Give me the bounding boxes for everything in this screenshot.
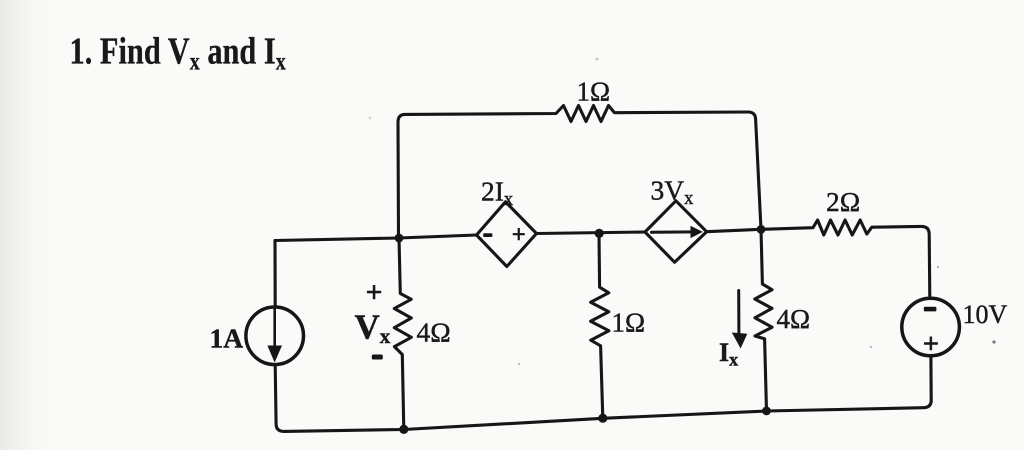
svg-text:4Ω: 4Ω xyxy=(417,317,451,348)
svg-text:1A: 1A xyxy=(210,323,244,354)
svg-text:+: + xyxy=(365,276,382,309)
svg-text:+: + xyxy=(512,222,526,249)
svg-text:4Ω: 4Ω xyxy=(777,304,811,334)
svg-text:Ix: Ix xyxy=(719,338,738,370)
svg-text:2Ω: 2Ω xyxy=(826,186,860,217)
svg-text:Vx: Vx xyxy=(355,308,391,349)
svg-text:1Ω: 1Ω xyxy=(612,308,646,338)
svg-text:1. Find Vx and Ix: 1. Find Vx and Ix xyxy=(70,30,287,75)
svg-text:1Ω: 1Ω xyxy=(577,77,611,107)
svg-text:+: + xyxy=(923,328,940,360)
svg-text:2Ix: 2Ix xyxy=(481,176,514,211)
svg-text:3Vx: 3Vx xyxy=(651,175,695,210)
svg-text:10V: 10V xyxy=(963,300,1008,329)
